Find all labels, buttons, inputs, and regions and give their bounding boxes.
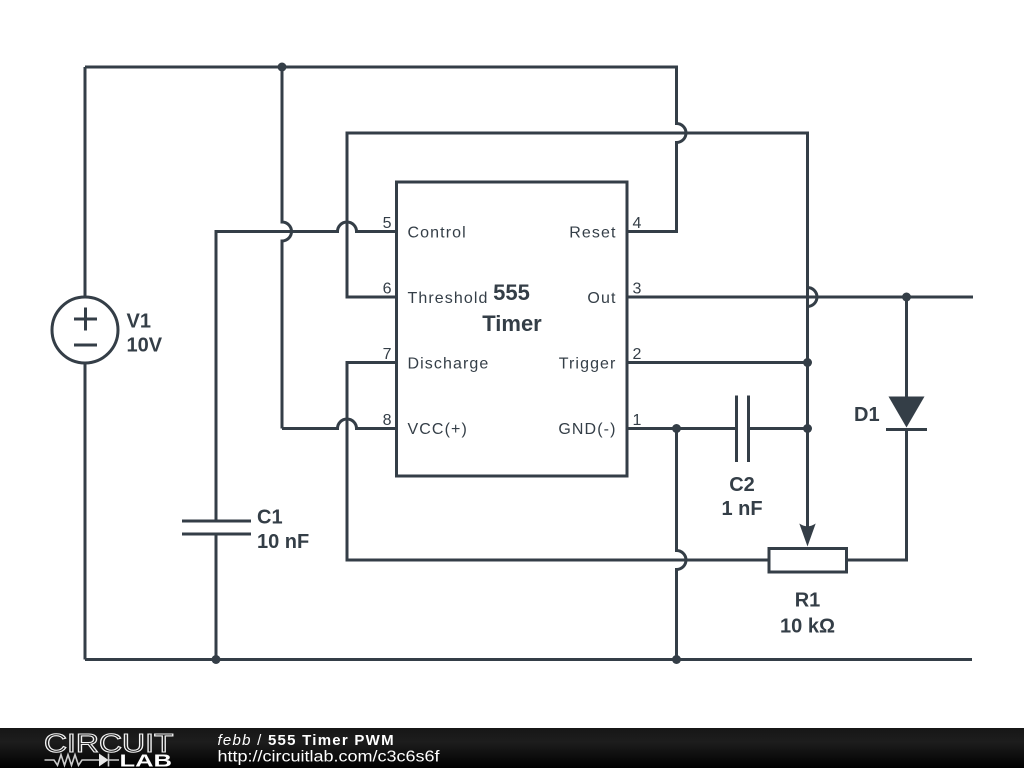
capacitor C2 xyxy=(737,396,808,463)
node junction top rail x282 xyxy=(278,63,287,72)
label R1 10 kOhm xyxy=(780,590,835,638)
pin label Out xyxy=(587,290,616,307)
CircuitLab logo wordmark CIRCUIT xyxy=(44,728,174,758)
wire x807 vertical hop over out wire xyxy=(808,288,817,307)
node junction C2 right xyxy=(803,424,812,433)
svg-text:Timer: Timer xyxy=(482,311,542,336)
potentiometer wiper arrow into R1 xyxy=(799,363,815,547)
footer title febb / 555 Timer PWM xyxy=(218,732,395,749)
label D1 xyxy=(854,404,880,426)
svg-text:1: 1 xyxy=(633,412,642,429)
555 timer IC U1 box xyxy=(397,182,628,476)
pin label Trigger xyxy=(559,356,617,373)
node junction C1 at ground rail xyxy=(212,655,221,664)
wire discharge pin7 down to R1 row xyxy=(347,363,769,561)
wire gnd pin1 run to C2 xyxy=(627,427,737,430)
wire left rail upper xyxy=(84,67,87,297)
pin 1 number xyxy=(633,412,642,429)
svg-text:D1: D1 xyxy=(854,404,880,426)
svg-text:5: 5 xyxy=(383,215,392,232)
svg-text:Out: Out xyxy=(587,290,616,307)
wire left rail lower xyxy=(84,363,87,660)
pin 3 number xyxy=(633,281,642,298)
svg-text:8: 8 xyxy=(383,412,392,429)
label 555 Timer xyxy=(482,280,542,336)
svg-text:7: 7 xyxy=(383,346,392,363)
pin label Reset xyxy=(569,225,616,242)
capacitor C1 xyxy=(182,521,251,660)
pin 4 number xyxy=(633,215,642,232)
wire gnd drop x676 with hop over R1 row xyxy=(677,429,687,660)
voltage source V1 xyxy=(52,297,118,363)
label V1 10V xyxy=(127,311,163,357)
svg-text:C1: C1 xyxy=(257,507,283,529)
svg-text:GND(-): GND(-) xyxy=(558,421,616,438)
pin label VCC(+) xyxy=(408,421,468,438)
pin label Discharge xyxy=(408,356,490,373)
diode D1 xyxy=(886,297,927,430)
svg-text:LAB: LAB xyxy=(120,751,173,768)
svg-text:10 nF: 10 nF xyxy=(257,531,309,553)
svg-text:6: 6 xyxy=(383,281,392,298)
label C1 10 nF xyxy=(257,507,309,554)
svg-text:1 nF: 1 nF xyxy=(721,498,762,520)
svg-text:Reset: Reset xyxy=(569,225,616,242)
footer black bar xyxy=(0,728,1024,768)
wire top rail from V1 to Reset drop with hop over threshold wire xyxy=(85,67,686,232)
resistor R1 body xyxy=(769,549,847,573)
svg-text:http://circuitlab.com/c3c6s6f: http://circuitlab.com/c3c6s6f xyxy=(218,749,441,766)
svg-text:C2: C2 xyxy=(729,474,755,496)
pin label GND(-) xyxy=(558,421,616,438)
svg-text:555: 555 xyxy=(493,280,530,305)
wire VCC pin8 run with hop over discharge vertical xyxy=(282,419,397,429)
svg-text:2: 2 xyxy=(633,346,642,363)
svg-text:10 kΩ: 10 kΩ xyxy=(780,616,835,638)
svg-text:10V: 10V xyxy=(127,335,163,357)
pin 2 number xyxy=(633,346,642,363)
svg-text:3: 3 xyxy=(633,281,642,298)
svg-text:Trigger: Trigger xyxy=(559,356,617,373)
footer url xyxy=(218,749,441,766)
svg-text:4: 4 xyxy=(633,215,642,232)
wire trigger pin2 run xyxy=(627,361,808,364)
wire VCC drop x282 with hop over control wire xyxy=(282,67,292,429)
wire bottom ground rail xyxy=(85,658,972,661)
CircuitLab logo wordmark LAB xyxy=(120,751,173,768)
node junction gnd rail x676 xyxy=(672,655,681,664)
svg-text:Control: Control xyxy=(408,225,467,242)
svg-text:febb / 555 Timer PWM: febb / 555 Timer PWM xyxy=(218,732,395,749)
wire R1 right to D1 branch xyxy=(847,430,907,561)
svg-text:Threshold: Threshold xyxy=(408,290,489,307)
pin 7 number xyxy=(383,346,392,363)
svg-text:V1: V1 xyxy=(127,311,151,333)
node junction out to D1 xyxy=(902,293,911,302)
pin label Control xyxy=(408,225,467,242)
pin 6 number xyxy=(383,281,392,298)
wire threshold pin6 to trigger net: up and across to x807 xyxy=(347,133,808,363)
node junction gnd drop xyxy=(672,424,681,433)
wire out pin3 run xyxy=(627,296,973,299)
svg-text:R1: R1 xyxy=(795,590,821,612)
node junction trigger x807 xyxy=(803,358,812,367)
svg-text:VCC(+): VCC(+) xyxy=(408,421,468,438)
pin label Threshold xyxy=(408,290,489,307)
pin 8 number xyxy=(383,412,392,429)
CircuitLab logo resistor-diode squiggle xyxy=(45,754,120,767)
wire control pin5 run with hop bump over discharge-up vertical xyxy=(216,222,397,521)
label C2 1 nF xyxy=(721,474,762,520)
svg-text:Discharge: Discharge xyxy=(408,356,490,373)
pin 5 number xyxy=(383,215,392,232)
